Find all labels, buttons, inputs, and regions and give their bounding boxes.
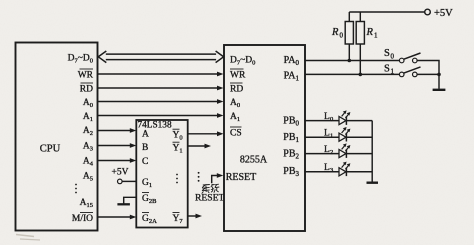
wire Y0 to CS [188,133,218,135]
arrowhead A4 [130,158,137,163]
+5V rail and terminal (top right) [349,8,453,19]
svg-text:D7~D0: D7~D0 [230,55,255,66]
wire PA1 to switch S1 [305,73,399,75]
switch S0 [384,48,421,63]
CPU box [16,43,98,231]
wire M/IO CPU to 74LS138 G2A [98,216,131,218]
ground (LEDs) [367,181,379,183]
arrowhead Y7 [196,214,203,219]
arrowhead RD [217,86,224,91]
pin label CS (8255A) [230,127,242,138]
wire RD CPU to 8255A [98,87,218,89]
data bus D7~D0 (double-headed hollow arrow) [98,51,223,63]
svg-text:2: 2 [330,149,333,156]
wire PA0 to switch S0 [305,60,399,62]
ellipsis dots (74LS138 outputs, inside) [176,174,178,184]
svg-text:8255A: 8255A [240,154,268,165]
svg-text:RESET: RESET [195,192,224,203]
arrowhead A1 [217,113,224,118]
wire S1 to ground bus [417,73,439,75]
svg-text:WR: WR [230,70,246,80]
arrowhead Y1 [205,144,212,149]
wire WR CPU to 8255A [98,73,218,75]
svg-text:CS: CS [230,128,242,138]
wire A2 CPU to 74LS138 A [98,130,131,132]
resistor R0 [331,12,353,61]
LED L0 [305,110,372,125]
svg-text:B: B [142,143,148,153]
pin label RD (8255A) [230,83,243,94]
arrowhead WR [217,72,224,77]
ground at G2B [117,197,136,204]
scan artifact bottom-left [16,235,40,241]
wire Y7 stub [188,215,197,217]
wire A1 CPU to 8255A [98,115,218,117]
svg-text:1: 1 [330,133,333,140]
LED L3 [305,162,372,177]
svg-text:0: 0 [330,116,333,123]
ellipsis dots (CPU address pins) [75,184,77,194]
junction dot R0/PA0 [348,59,352,63]
wire A3 CPU to 74LS138 B [98,145,131,147]
svg-text:RD: RD [80,84,93,94]
svg-text:+5V: +5V [112,167,129,177]
svg-text:0: 0 [391,52,395,60]
svg-text:R: R [331,27,339,38]
pin label G2B (74LS138) [142,193,157,205]
svg-text:S: S [384,48,390,59]
arrowhead Y0 to CS [217,131,224,136]
svg-text:CPU: CPU [40,144,61,155]
junction dot R1/PA1 [359,73,363,77]
LED L2 [305,143,372,158]
svg-text:D7~D0: D7~D0 [68,53,93,64]
pin label RD (CPU) [80,83,93,94]
svg-text:0: 0 [340,31,344,39]
pin label WR (CPU) [78,69,94,80]
+5V supply to G1 [112,167,137,183]
系统RESET label [195,184,224,203]
wire S0 to ground bus [417,61,439,75]
svg-text:RD: RD [230,84,243,94]
ellipsis dots (74LS138 outputs, outside) [198,172,200,182]
svg-text:A: A [142,129,149,139]
LED L1 [305,127,372,142]
ground (switches) [433,74,446,89]
svg-text:3: 3 [330,167,333,174]
wire A0 CPU to 8255A [98,101,218,103]
junction dot switch ground bus [437,73,441,77]
pin label Y7 (74LS138) [173,213,184,225]
svg-text:C: C [142,157,148,167]
arrowhead A2 [130,128,137,133]
8255A box U1 [224,45,305,231]
svg-text:R: R [366,27,374,38]
arrowhead M/IO [130,215,137,220]
pin label WR (8255A) [230,69,246,80]
arrowhead A3 [130,143,137,148]
wire A4 CPU to 74LS138 C [98,160,131,162]
svg-text:M/IO: M/IO [72,214,93,224]
pin label Y1 (74LS138) [173,142,183,154]
pin label Y0 (74LS138) [173,129,183,141]
svg-text:1: 1 [391,68,395,76]
wire Y1 stub [188,145,206,147]
resistor R1 [356,12,378,74]
pin label G2A (74LS138) [142,213,157,225]
arrowhead A0 [217,99,224,104]
switch S1 [384,63,421,76]
svg-text:WR: WR [78,70,94,80]
svg-text:S: S [384,63,390,74]
74LS138 decoder box U2 [136,120,187,228]
wire system reset to RESET pin [212,173,224,183]
svg-text:+5V: +5V [434,8,453,19]
svg-text:RESET: RESET [226,172,257,183]
svg-text:1: 1 [374,31,378,39]
LED common cathode bus wire [371,121,373,182]
pin label M/IO (CPU) [72,213,93,224]
